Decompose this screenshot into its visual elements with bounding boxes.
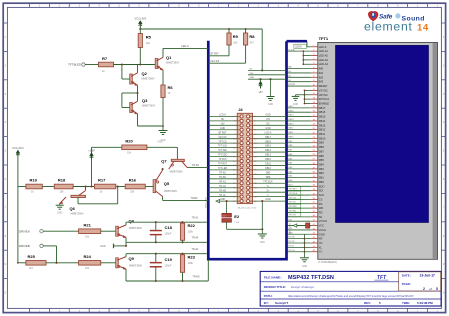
svg-text:MMBT3904: MMBT3904 [142,104,156,107]
svg-text:TR-XL: TR-XL [288,245,295,247]
svg-text:DB10: DB10 [265,168,272,170]
svg-text:VSYNC: VSYNC [319,88,328,92]
svg-text:TR-A1: TR-A1 [219,180,226,183]
svg-text:P-TM043B(2R2): P-TM043B(2R2) [319,261,337,264]
svg-text:BY:: BY: [264,301,269,305]
svg-text:100k: 100k [188,230,194,233]
svg-text:DB14: DB14 [265,150,272,152]
svg-text:MMBT3904: MMBT3904 [142,77,156,80]
svg-text:DB1: DB1 [319,176,325,180]
svg-text:Y-: Y- [267,195,269,197]
svg-text:Q8: Q8 [129,219,135,224]
svg-text:CS: CS [319,197,323,201]
svg-text:5:49:38 PM: 5:49:38 PM [417,301,433,305]
svg-text:TFT.RD: TFT.RD [289,210,297,212]
svg-text:VCC+3V3: VCC+3V3 [134,16,146,20]
svg-text:KEY-2/3: KEY-2/3 [211,60,220,63]
svg-text:14: 14 [417,22,429,33]
svg-text:ENABLE: ENABLE [319,101,330,105]
svg-text:+5V: +5V [258,91,263,94]
svg-text:TR-A2: TR-A2 [192,248,199,251]
svg-text:TR-A4: TR-A4 [192,237,199,240]
svg-text:MCU+3V3: MCU+3V3 [206,197,208,208]
svg-text:element: element [364,20,413,34]
svg-text:Q9: Q9 [129,256,135,261]
svg-text:TFT.TE: TFT.TE [289,215,296,217]
svg-text:TFT.RST: TFT.RST [218,164,228,166]
svg-text:Q7: Q7 [161,158,167,163]
svg-text:DB13: DB13 [319,123,326,127]
svg-text:TR-B1: TR-B1 [192,164,200,167]
svg-text:Design challenge: Design challenge [291,285,314,289]
svg-text:MSP432 TFT.DSN: MSP432 TFT.DSN [288,275,334,281]
svg-text:DB17: DB17 [265,137,272,139]
svg-text:TFT.BLED: TFT.BLED [68,63,81,67]
svg-text:DB16: DB16 [265,141,272,143]
svg-text:R16: R16 [129,178,137,183]
svg-text:NC: NC [250,68,254,70]
svg-text:TR-XR: TR-XR [219,190,226,192]
svg-text:SCK: SCK [319,193,325,197]
svg-text:DB10: DB10 [319,136,326,140]
svg-text:DB17: DB17 [288,106,294,108]
svg-text:LED-K: LED-K [295,47,302,49]
svg-text:DB5: DB5 [319,158,325,162]
svg-text:IM3: IM3 [319,80,324,84]
svg-text:DATE:: DATE: [402,274,411,278]
svg-text:DB9: DB9 [266,172,271,174]
svg-text:IM1: IM1 [319,71,324,75]
svg-text:TFT.SCK: TFT.SCK [218,146,228,148]
svg-text:TFT.SDI: TFT.SDI [289,189,297,191]
svg-text:GND: GND [250,77,255,79]
svg-text:DB12: DB12 [288,128,294,130]
svg-text:TFT1: TFT1 [319,36,329,41]
svg-text:TR-B1: TR-B1 [219,172,226,174]
svg-text:DB13: DB13 [288,123,294,125]
svg-text:100nF: 100nF [165,265,173,268]
svg-text:VCCIO: VCCIO [319,219,327,223]
svg-text:GND: GND [265,128,270,130]
svg-text:DB11: DB11 [288,132,294,134]
svg-text:R17: R17 [98,178,106,183]
svg-text:TFT.LED: TFT.LED [218,168,228,170]
svg-text:VCC+3V3: VCC+3V3 [12,147,24,150]
svg-text:DB16: DB16 [288,110,294,112]
svg-text:100k: 100k [188,262,194,265]
svg-text:LED-K: LED-K [319,45,327,49]
svg-text:GND: GND [319,232,325,236]
svg-text:NC: NC [288,75,292,77]
svg-text:TR-B2: TR-B2 [219,177,226,179]
svg-text:DB9: DB9 [319,141,325,145]
svg-text:GND: GND [220,128,225,130]
svg-text:LED-A1: LED-A1 [319,49,329,53]
svg-text:MMBT3906: MMBT3906 [170,170,184,173]
svg-text:DB8: DB8 [319,145,325,149]
svg-text:XR: XR [319,237,323,241]
svg-text:DB0: DB0 [319,180,325,184]
svg-text:MMBT3906: MMBT3906 [129,264,143,267]
svg-text:MMBT3904: MMBT3904 [71,213,85,216]
svg-text:YD: YD [319,241,323,245]
svg-text:LED-A: LED-A [181,45,189,48]
svg-text:GND: GND [260,242,265,244]
svg-text:R8: R8 [249,34,255,39]
svg-text:TR-A2: TR-A2 [219,185,226,188]
svg-text:GND: GND [100,244,106,248]
svg-text:R7: R7 [102,56,108,61]
svg-text:R25: R25 [28,254,36,259]
svg-text:SlLpinheader 2X20: SlLpinheader 2X20 [238,207,257,210]
svg-text:DB12: DB12 [265,159,272,161]
svg-text:+5V: +5V [220,123,225,125]
svg-text:R20: R20 [125,139,133,144]
svg-text:REV:: REV: [364,301,371,305]
svg-text:MCU+3V3: MCU+3V3 [290,223,292,234]
svg-text:GND: GND [268,104,273,106]
svg-text:DB2: DB2 [319,171,325,175]
svg-text:GND: GND [265,199,270,201]
svg-text:R22: R22 [188,223,196,228]
svg-text:DB7: DB7 [319,149,325,153]
svg-text:DB13: DB13 [265,155,272,157]
svg-text:GND: GND [57,213,62,215]
svg-text:MMBT3904: MMBT3904 [166,61,180,64]
svg-text:MMBT3906: MMBT3906 [164,190,178,193]
svg-text:BT.RST: BT.RST [211,53,220,56]
svg-text:TFT.DC: TFT.DC [289,202,297,204]
svg-text:TR-XR: TR-XR [288,237,295,239]
svg-text:TR-YD: TR-YD [288,241,295,243]
svg-text:TR-HD: TR-HD [192,276,199,278]
svg-text:R18: R18 [58,178,66,183]
svg-text:TR-XL: TR-XL [219,195,226,197]
svg-text:GND: GND [220,199,225,201]
svg-text:BT.RST: BT.RST [288,84,296,86]
svg-text:5: 5 [436,287,438,291]
svg-text:DB3: DB3 [319,167,325,171]
svg-text:Q2: Q2 [142,71,148,76]
svg-text:R19: R19 [30,178,38,183]
svg-text:4k7: 4k7 [250,41,255,44]
svg-text:DB15: DB15 [288,115,294,117]
svg-text:DOTCLK: DOTCLK [319,97,330,101]
svg-text:LCD-A: LCD-A [265,131,272,134]
svg-text:WR: WR [319,206,323,210]
svg-text:PAGE:: PAGE: [402,282,411,286]
svg-text:DB4: DB4 [319,163,325,167]
svg-text:NC: NC [266,123,270,125]
svg-text:TIME:: TIME: [402,301,410,305]
svg-text:LCD-A: LCD-A [288,48,295,51]
svg-text:Q5: Q5 [164,181,170,186]
svg-text:TFT.SCK: TFT.SCK [289,193,298,195]
svg-text:R5: R5 [146,35,152,40]
svg-text:TFT.WR: TFT.WR [289,206,297,208]
svg-text:RD: RD [319,210,323,214]
svg-text:TFT.SCK: TFT.SCK [263,181,273,183]
svg-text:VCC: VCC [319,224,325,228]
svg-text:DB17: DB17 [319,106,326,110]
svg-text:SDO: SDO [319,184,325,188]
svg-text:DB15: DB15 [265,146,272,148]
svg-text:xxxx: xxxx [222,215,226,217]
svg-text:TFT.CS: TFT.CS [219,141,227,143]
svg-text:GND: GND [293,104,298,106]
svg-text:TR-B2: TR-B2 [191,197,199,200]
svg-text:RESET: RESET [319,84,328,88]
svg-text:+5V: +5V [266,119,271,121]
svg-text:DB11: DB11 [319,132,326,136]
svg-text:DB6: DB6 [319,154,325,158]
svg-text:TFT.SDO: TFT.SDO [218,155,228,157]
svg-text:LED-A3: LED-A3 [319,58,329,62]
svg-text:C18: C18 [165,225,173,230]
svg-text:100nF: 100nF [165,232,173,235]
svg-text:SDI: SDI [319,189,324,193]
svg-text:E2: E2 [234,214,240,219]
svg-text:RS: RS [319,202,323,206]
svg-text:DB16: DB16 [319,110,326,114]
svg-text:TR-A1: TR-A1 [192,216,199,219]
svg-text:J4: J4 [238,107,243,112]
svg-text:NC: NC [221,119,225,121]
svg-text:DRIVEB: DRIVEB [19,244,30,248]
svg-text:R21: R21 [84,222,92,227]
svg-text:FILE NAME:: FILE NAME: [264,276,282,280]
svg-text:13-Jun-17: 13-Jun-17 [420,273,436,277]
svg-text:SDO: SDO [288,184,293,186]
svg-text:LCD-A: LCD-A [219,114,226,117]
svg-text:DB8: DB8 [266,177,271,179]
svg-text:DB12: DB12 [319,128,326,132]
svg-text:DB15: DB15 [319,115,326,119]
svg-text:4k7: 4k7 [29,267,34,270]
svg-text:R6: R6 [168,85,174,90]
svg-text:VCCA: VCCA [319,228,326,232]
svg-text:LED-A2: LED-A2 [319,54,329,58]
svg-text:R24: R24 [84,254,92,259]
svg-text:DESIGN TITLE:: DESIGN TITLE: [264,285,286,289]
svg-text:TE: TE [319,215,323,219]
svg-text:DB14: DB14 [288,119,294,121]
svg-text:of: of [429,287,432,291]
svg-text:\Elena\Element14\Design challe: \Elena\Element14\Design challenge2017\Sa… [288,294,414,298]
svg-text:PATH:: PATH: [264,294,273,298]
svg-text:C19: C19 [165,257,173,262]
svg-text:2: 2 [423,287,425,291]
svg-text:DB10: DB10 [288,136,294,138]
svg-text:DRIVEA: DRIVEA [19,229,30,233]
svg-text:TFT.SDI: TFT.SDI [218,150,227,152]
svg-text:XL: XL [319,245,323,249]
svg-text:TFT.DC: TFT.DC [218,159,226,161]
svg-text:GND: GND [302,266,307,268]
svg-text:R23: R23 [188,255,196,260]
svg-text:MMBT3906: MMBT3906 [129,227,143,230]
svg-text:Q3: Q3 [142,98,148,103]
svg-text:DB14: DB14 [319,119,326,123]
svg-text:IM0: IM0 [319,67,324,71]
svg-text:NC: NC [288,71,292,73]
svg-text:Q6: Q6 [70,206,76,211]
svg-text:GND: GND [158,142,163,144]
svg-text:LED-A4: LED-A4 [319,62,329,66]
svg-text:SunnyUT: SunnyUT [275,301,288,305]
svg-text:YU: YU [319,250,323,254]
svg-text:TR-YU: TR-YU [288,250,295,252]
svg-text:HSYNC: HSYNC [319,93,328,97]
svg-text:+1.8V: +1.8V [88,149,95,152]
svg-text:DB11: DB11 [265,164,271,166]
svg-text:KEY2/3: KEY2/3 [219,137,228,139]
svg-text:IM2: IM2 [319,75,324,79]
svg-text:NC: NC [288,80,292,82]
svg-text:R9: R9 [233,34,239,39]
svg-text:GND: GND [265,115,270,117]
svg-text:BT.RST: BT.RST [218,132,227,134]
svg-text:TFT.CS: TFT.CS [289,197,297,199]
svg-text:Q1: Q1 [166,55,172,60]
